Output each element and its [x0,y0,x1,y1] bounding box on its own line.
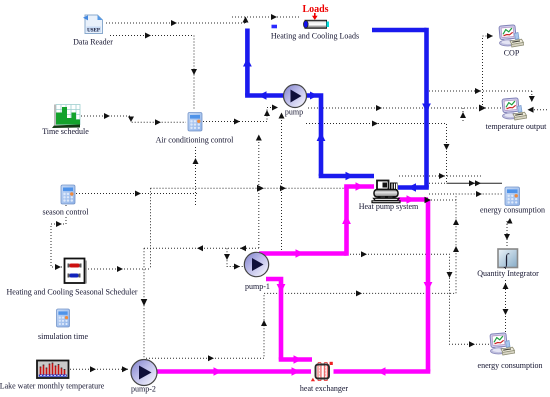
arrow: right arrowhead into COP [487,33,493,39]
arrow: red arrow from Loads label to cylinder [314,13,316,17]
link: lake water to pump-2 [70,368,129,370]
Heating and Cooling Loads cylinder U11 [304,20,330,28]
arrow: right arrowhead on lake link [90,366,96,372]
arrow: magenta right arrow before heat exchanger [292,367,301,376]
COP icon U14 (computer and printer) [499,25,524,47]
link: drop into temperature output top [531,91,533,100]
wire: blue stub left of Loads label [272,25,278,29]
Heat pump system icon U12 [372,181,400,204]
arrow: up arrowhead on x456 riser high [453,219,459,225]
link: riser x482.5 up to COP [483,36,495,108]
arrow: up arrowhead at top of x281.5 [279,113,285,119]
svg-text:temperature output: temperature output [486,122,547,131]
svg-text:Time schedule: Time schedule [42,127,89,136]
arrow: down arrowhead on pump-1 hook [224,254,230,260]
arrow: left arrowhead on y248 line [197,245,203,251]
arrow: blue left arrow into vertical pipe [258,91,267,100]
svg-text:Data Reader: Data Reader [73,38,113,47]
link: Time schedule to Air conditioning control [81,116,186,122]
arrow: up arrowhead on x264 riser [261,320,267,326]
arrow: double arrowhead on solid link [469,180,475,186]
link: long east line at y=188 to heat pump [151,187,346,189]
arrow: right arrowhead into pump-1 [234,264,240,270]
link: vertical x=281.5 from pump label down [281,114,283,250]
link: heat pump east to riser [399,175,483,177]
svg-text:season control: season control [43,208,90,217]
arrow: right arrowhead into energy consumption [476,191,482,197]
link: dotted lead-in to solid link [429,182,447,184]
Air conditioning control icon U3 (calculator) [188,113,202,132]
temperature output icon U15 (computer and printer) [502,98,527,120]
pump icon U10 [284,85,307,108]
arrow: right arrowhead on heat pump east link [439,173,445,179]
svg-text:Heating and Cooling Loads: Heating and Cooling Loads [271,31,359,40]
arrow: right arrowhead into Loads [271,14,277,20]
svg-text:Lake water monthly temperature: Lake water monthly temperature [0,382,105,391]
Lake water monthly temperature icon U7 [37,361,69,379]
svg-text:Heating and Cooling Seasonal S: Heating and Cooling Seasonal Scheduler [6,288,137,297]
arrow: right arrowhead on Data Reader-AC link [145,33,151,39]
arrow: down arrowhead on x449 drop [447,272,453,278]
arrow: right arrowhead on y293 segment [356,290,362,296]
arrow: right arrowhead into pump [272,105,278,111]
arrow: left arrowhead into temperature output right [528,107,534,113]
link: short y194 segment from pipes to riser [429,193,456,195]
wire: magenta pipe pump-1 top to riser [259,251,347,256]
arrow: down arrowhead into AC control [191,69,197,75]
link: AC control to pump [203,108,278,122]
link: riser joining Loads line [245,17,247,23]
link: pump lower east line to x446 drop [306,124,447,183]
arrow: right arrowhead on AC-pump link [234,119,240,125]
link: pump to COP line [429,90,532,92]
link: heat pump lower east short link [428,199,456,201]
wire: magenta bottom line right of heat exchanger [334,369,431,374]
arrow: blue down blob on right vertical [422,104,431,113]
arrow: right arrowhead east line at crossing [280,185,286,191]
link: short riser x463 [462,108,464,123]
Data Reader icon U1 [83,15,103,34]
simulation time icon U6 (calculator) [57,309,70,327]
arrow: blue junction blob at pump outlet [310,92,318,100]
arrow: magenta left arrow into heat exchanger right [377,367,386,376]
arrow: junction arrowhead on temp output link [479,105,486,112]
arrow: small up hook at energy consumption bottom [507,218,513,224]
svg-text:pump: pump [285,108,303,117]
wire: blue pipe top right horizontal from Loads [372,28,427,33]
wire: magenta stub from pump-1 bottom going down [266,279,281,360]
Time schedule icon U2 [52,105,80,129]
wire: magenta stub into heat exchanger top-left [279,357,312,362]
link: into Loads cylinder [232,16,301,18]
arrow: right arrowhead into bottom energy consumption [469,341,475,347]
svg-text:Heat pump system: Heat pump system [359,202,419,211]
wire: blue pipe horizontal into pump left [245,93,284,98]
arrow: right arrowhead on Time schedule link [104,113,110,119]
arrow: right arrowhead into scheduler [55,264,61,270]
link: season control to scheduler [51,205,66,267]
arrow: magenta right arrow after pump-2 [214,367,223,376]
arrow: right arrowhead on y123.5 line [372,121,378,127]
arrow: down arrowhead on x446 drop [444,144,450,150]
link: Data Reader to Loads (horizontal) [106,22,246,24]
arrow: up arrowhead on AC riser [193,158,199,164]
link: right edge into temperature output [534,109,549,111]
arrow: blue up arrow on left vertical pipe [243,58,252,67]
arrow: right arrowhead into AC control left [155,119,161,125]
arrow: right arrowhead on COP feed [475,88,481,94]
arrow: right arrowhead mid east line [257,185,264,192]
link: solid line into energy consumption [447,182,503,184]
link: scheduler right line to x150 riser [85,268,151,270]
wire: magenta riser up to heat pump level [344,187,349,256]
link: riser from season line up into AC control [195,141,197,205]
arrow: magenta down arrow on right vertical [424,282,433,291]
arrow: down arrowhead into bottom energy consumption [503,309,509,315]
wire: magenta bottom line from pump-2 to heat exchanger [157,369,311,374]
svg-text:Air conditioning control: Air conditioning control [156,136,235,145]
svg-text:COP: COP [504,49,520,58]
arrow: right arrowhead on temp output link mid [376,105,382,111]
wire: magenta out of heat pump lower-right [398,197,428,202]
wire: blue pipe right vertical down [424,28,429,188]
arrow: blue right arrow into heat pump [346,172,355,181]
arrow: magenta right arrow into heat pump left [356,182,365,191]
link: horizontal y=248 leftward line [144,247,259,249]
arrow: up arrowhead at Loads line junction [243,17,249,23]
svg-text:energy consumption: energy consumption [480,206,545,215]
label: Quantity Integrator [476,269,540,279]
arrow: magenta down arrow on pump-1 drop [277,284,286,293]
arrow: right arrowhead into pump-2 [122,366,128,372]
arrow: blue left arrow into heat pump right [408,183,417,192]
arrow: right arrowhead on Data Reader-Loads link [171,20,177,26]
label: season control [40,207,91,217]
arrow: up arrowhead on x463 riser [460,112,466,118]
arrow: magenta right arrow leaving heat pump [407,195,416,204]
svg-text:pump-1: pump-1 [245,282,270,291]
arrow: second arrowhead on solid link [475,180,481,186]
link: energy consumption down to Quantity Integrator [506,221,508,248]
arrow: black junction arrowhead at heat pump lower-right link [425,197,432,203]
svg-text:energy consumption: energy consumption [478,361,543,370]
arrow: up arrowhead on x456 riser low [453,246,459,252]
pump-1 icon U9 [244,252,268,276]
svg-text:heat exchanger: heat exchanger [300,384,349,393]
arrow: magenta up arrow on riser [342,215,351,224]
energy consumption bottom icon U18 (computer and printer) [490,333,515,355]
heat exchanger icon U13 [311,362,333,381]
pump-2 icon U8 [131,360,157,386]
arrow: right arrowhead on y358 segment [208,355,214,361]
link: vertical x=144 from y248 down to pump-2 [143,248,145,359]
arrow: up arrowhead at top of x258.8 [256,135,262,141]
wire: magenta into heat pump lower-left [344,184,374,189]
arrow: right arrowhead on y254 line [361,251,367,257]
wire: blue pipe vertical from Loads down-left to pump junction [245,29,250,96]
arrow: left arrowhead on y248 line near corner [240,245,246,251]
arrow: down arrowhead into integrator [504,234,510,240]
arrow: down arrowhead at jog [128,117,134,123]
link: vertical x=258.8 from arrow top down to y248 [258,136,260,248]
link: vertical x=150.5 from east line down to scheduler line [150,188,152,269]
wire: blue pipe horizontal into heat pump top-left [319,174,374,179]
label: Air conditioning control [153,136,236,146]
link: hook into pump-1 left [227,248,243,266]
season control icon U4 (calculator) [61,185,75,204]
Heating and Cooling Seasonal Scheduler icon U5 [65,259,88,284]
arrow: up arrowhead near integrator bottom [503,283,509,289]
link: Quantity Integrator down to bottom energy consumption [505,268,507,332]
wire: magenta right vertical down to bottom line [426,200,431,372]
svg-text:Quantity Integrator: Quantity Integrator [477,269,539,278]
energy consumption icon U16 (calculator) [505,187,520,206]
link: season control to AC control [76,193,199,195]
wire: blue pipe into heat pump right side [398,185,429,190]
link: pump to temperature output [308,107,501,109]
arrow: down arrowhead on pump-2 drop [141,299,148,306]
arrow: right arrowhead on scheduler hook top [56,221,62,227]
svg-text:pump-2: pump-2 [131,385,156,394]
arrow: right arrowhead on season-AC link [135,191,141,197]
link: pump-2 up-and-right to energy consumption [146,194,502,358]
link: Data Reader to Air conditioning control [110,36,194,111]
arrow: magenta right arrow on exchanger stub [294,355,303,364]
arrow: up arrowhead on AC-pump riser [264,110,270,116]
arrow: down arrowhead into temperature output [529,96,535,102]
Quantity Integrator icon U17 [498,249,518,268]
svg-text:simulation time: simulation time [38,332,88,341]
arrow: magenta right arrow on pump-1 outlet [296,249,305,258]
arrow: blue up arrow on pump-heat pump vertical [317,132,326,141]
svg-text:USEP: USEP [87,29,100,34]
link: pump-1 east to bottom energy consumption [350,254,489,344]
wire: blue pipe from pump right going down [307,96,322,177]
arrow: right arrowhead on scheduler line [117,266,123,272]
